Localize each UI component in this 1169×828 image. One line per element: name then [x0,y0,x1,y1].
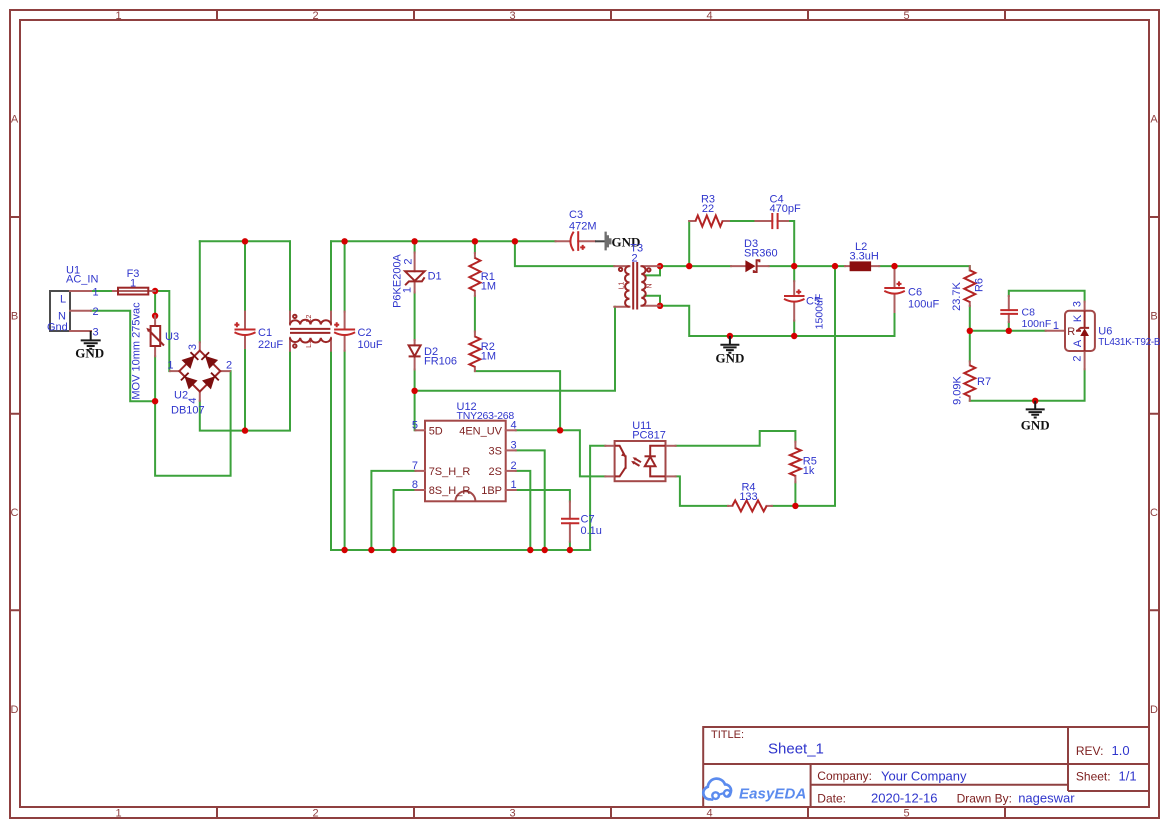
svg-text:C6: C6 [908,287,922,299]
wire opto LED anode to R5 [676,431,796,446]
svg-text:1/1: 1/1 [1119,769,1137,784]
wire D1 to D2 [414,293,416,341]
junction C7 on source bus [567,547,573,553]
wire fuse out to junction and down to bridge pin1 [148,291,170,371]
svg-text:1: 1 [402,287,414,293]
junction T3 feed on bus [512,238,518,244]
wire AC L from U1 pin1 to fuse [91,290,118,292]
svg-text:100uF: 100uF [908,299,939,311]
ground at U6 anode [1021,401,1050,433]
wire U12 pin4 EN/UV to opto emitter [516,430,606,476]
junction after fuse [152,288,158,294]
resistor R1 1M [469,253,496,296]
wire N node down and to bridge pin2 [155,371,231,476]
svg-text:1: 1 [115,10,121,22]
svg-text:1: 1 [1053,320,1059,332]
svg-text:K: K [1072,314,1084,322]
wire D2 bottom to drain node [414,370,416,391]
svg-text:1: 1 [115,808,121,820]
svg-text:L2: L2 [306,315,313,323]
wire R1 top stub [474,241,476,253]
power flag GND at C3 [595,232,640,251]
wire R7 bottom to U6 anode [970,369,1085,401]
svg-text:MOV 10mm 275vac: MOV 10mm 275vac [130,302,142,400]
svg-text:C1: C1 [258,327,272,339]
svg-text:Date:: Date: [817,792,846,806]
junction feedback riser on rail [832,263,838,269]
schottky diode D3 SR360 [731,238,778,272]
bridge diode 1-3 [183,352,198,367]
junction C2 top on bus [341,238,347,244]
wire R3 to C4 [729,220,755,222]
wire secondary rail to D3 [660,265,731,267]
wire C5 top [793,266,795,281]
svg-text:1: 1 [511,479,517,491]
svg-text:3: 3 [509,808,515,820]
wire bridge pin3 up to DC bus [199,241,201,342]
wire D1 top stub [414,241,416,252]
resistor R4 133 [728,482,772,512]
frame column ticks top [217,10,1005,20]
svg-text:1M: 1M [481,281,496,293]
connector U1 AC_IN [47,265,99,339]
svg-text:2: 2 [511,460,517,472]
wire D3 cathode to L2 [769,265,845,267]
svg-text:3.3uH: 3.3uH [850,251,879,263]
svg-text:GND: GND [715,351,744,366]
frame row ticks left [10,217,20,610]
capacitor C1 22uF [234,312,283,351]
wire choke top-right lead up to bus [330,241,332,311]
wire choke bottom-right lead down to source bus [330,351,332,550]
optocoupler U11 PC817 [605,420,675,481]
wire drain node down to U12 pin5 [414,391,417,431]
svg-text:2: 2 [312,10,318,22]
title block rev/sheet column divider [1068,727,1149,791]
wire bus to T3 primary top [515,241,614,266]
svg-text:R: R [1067,326,1075,338]
svg-text:A: A [1150,114,1158,126]
svg-text:L: L [60,293,66,305]
svg-text:5: 5 [903,808,909,820]
svg-text:1500uF: 1500uF [814,294,826,330]
TITLEBLOCK [703,727,1149,807]
svg-text:8: 8 [412,479,418,491]
wire R2 bottom to EN/UV line [475,371,560,430]
svg-text:9.09K: 9.09K [951,375,963,404]
resistor R6 23.7K [951,266,986,311]
resistor R3 22 [689,194,729,227]
svg-text:GND: GND [75,346,104,361]
svg-text:U2: U2 [174,390,188,402]
svg-text:2S: 2S [489,466,502,478]
wire C2 top to bus [344,241,346,311]
svg-text:TNY263-268: TNY263-268 [457,410,515,422]
junction C6 on rail [891,263,897,269]
wire R3 branch up [688,221,690,266]
junction pin2 on source bus [527,547,533,553]
svg-text:3: 3 [93,327,99,339]
capacitor C5 1500uF [784,281,826,329]
wire choke top-left lead up to bus [289,241,291,311]
svg-text:GND: GND [1021,418,1050,433]
junction GND at U6 anode [1032,398,1038,404]
capacitor C8 100nF [1000,296,1051,330]
svg-text:22: 22 [702,203,714,215]
svg-text:B: B [11,311,18,323]
svg-text:3: 3 [511,439,517,451]
capacitor C4 470pF [755,194,801,230]
junction D1 on bus [411,238,417,244]
svg-text:D1: D1 [428,271,442,283]
wire primary source bus [331,549,590,551]
wire R6 bottom to sense node [969,306,971,331]
svg-text:1.0: 1.0 [1112,743,1130,758]
svg-text:2: 2 [93,306,99,318]
svg-text:5: 5 [412,419,418,431]
wire U12 pin1 BP to C7 [516,490,570,502]
ground secondary GND [715,336,744,366]
junction MOV top [152,313,158,319]
svg-text:REV:: REV: [1076,744,1104,758]
junction pin7 on source bus [368,547,374,553]
svg-text:Sheet_1: Sheet_1 [768,741,824,758]
wire R4 right to feedback node [772,505,796,507]
svg-text:AC_IN: AC_IN [66,274,98,286]
junction R4/R5 feedback node [792,503,798,509]
wire sense node down to R7 [969,331,971,362]
svg-text:2: 2 [402,258,414,264]
svg-text:Gnd: Gnd [47,322,68,334]
svg-text:A: A [11,114,19,126]
opto LED [650,446,665,477]
junction pin3 on source bus [542,547,548,553]
junction T3 secondary bottom pin [657,303,663,309]
junction MOV bottom / N [152,398,158,404]
svg-text:3: 3 [187,344,199,350]
svg-text:1BP: 1BP [481,485,502,497]
svg-text:1: 1 [93,287,99,299]
svg-text:U3: U3 [165,331,179,343]
diode D2 FR106 [409,340,457,370]
svg-text:5D: 5D [429,425,443,437]
svg-text:4: 4 [187,397,199,403]
junction sense node [967,328,973,334]
varistor U3 MOV [130,302,179,400]
bridge rectifier U2 DB107 [167,342,232,416]
easyeda logo [703,779,731,800]
svg-text:4: 4 [706,10,712,22]
wire R1 to R2 [474,296,476,332]
wire sense node to U6 ref [970,330,1046,332]
junction T3 secondary top pin [657,263,663,269]
junction C5 bottom [791,333,797,339]
svg-text:3: 3 [1072,301,1084,307]
svg-text:0.1u: 0.1u [581,525,602,537]
resistor R7 9.09K [951,361,991,404]
svg-text:SR360: SR360 [744,248,778,260]
svg-text:470pF: 470pF [770,203,801,215]
capacitor C6 100uF [884,270,939,312]
frame row ticks right [1149,217,1159,610]
wire junction to MOV top [154,291,156,316]
wire opto LED cathode down to R4 [676,476,728,506]
transformer T3 [614,243,660,310]
svg-text:Sheet:: Sheet: [1076,770,1111,784]
svg-text:R6: R6 [974,278,986,292]
svg-text:2020-12-16: 2020-12-16 [871,791,938,806]
fuse F3 [113,268,155,295]
svg-text:100nF: 100nF [1022,318,1052,330]
wire T3 secondary top jog [645,266,661,275]
svg-text:C7: C7 [581,514,595,526]
svg-text:133: 133 [739,491,757,503]
svg-text:PC817: PC817 [632,430,666,442]
wire U12 pin3 to source bus [516,450,545,550]
title block outline [703,727,1149,807]
wire C7 bottom to source bus [569,542,571,550]
svg-text:C2: C2 [358,327,372,339]
wire C8 top over to U6 cathode [1009,291,1085,302]
wire C6 bottom [894,312,896,336]
capacitor C3 472M [556,209,597,251]
junction C1 bottom on DC- rail [242,427,248,433]
svg-text:1: 1 [130,278,136,290]
svg-text:L1: L1 [619,282,626,290]
opto phototransistor [615,446,626,477]
title block logo cell divider [811,764,1068,807]
wire T3 secondary bottom jog [645,296,661,306]
svg-text:FR106: FR106 [424,356,457,368]
bridge diode 4-1 [181,373,196,388]
svg-text:B: B [1150,311,1157,323]
svg-text:U6: U6 [1098,326,1112,338]
junction drain node [411,388,417,394]
wire C2 bottom to source bus [344,351,346,550]
wire U12 pin8 to source bus [394,490,416,550]
shunt regulator U6 TL431K-T92-B [1046,301,1161,369]
svg-text:7S_H_R: 7S_H_R [429,466,471,478]
opto light arrows [633,458,641,466]
junction R1 on bus [472,238,478,244]
svg-text:2: 2 [226,359,232,371]
svg-text:Your Company: Your Company [881,769,967,784]
capacitor C2 10uF [334,312,383,351]
wire drain node to T3 primary bottom [415,307,615,391]
svg-text:D: D [11,704,19,716]
svg-text:Company:: Company: [817,769,872,783]
svg-text:4EN_UV: 4EN_UV [459,425,502,437]
common-mode choke L1/L2 [290,312,331,351]
svg-text:N: N [647,283,654,288]
svg-text:Drawn By:: Drawn By: [957,792,1012,806]
svg-text:7: 7 [412,460,418,472]
junction C8 bottom [1006,328,1012,334]
svg-text:D: D [1150,704,1158,716]
junction C1 top on bus [242,238,248,244]
svg-text:A: A [1072,339,1084,347]
title block row divider [703,763,1149,765]
wire C4 right down to rail [788,221,794,266]
junction R3 branch [686,263,692,269]
resistor R5 1k [790,442,817,483]
wire bridge pin4 to DC- rail [200,351,290,431]
svg-text:10uF: 10uF [358,339,383,351]
svg-text:472M: 472M [569,221,597,233]
svg-text:C: C [11,507,19,519]
svg-text:22uF: 22uF [258,339,283,351]
svg-text:C: C [1150,507,1158,519]
wire secondary ground bus [660,306,895,336]
svg-text:4: 4 [706,808,712,820]
inductor L2 3.3uH [845,241,879,271]
svg-text:P6KE200A: P6KE200A [391,253,403,307]
svg-text:1: 1 [167,359,173,371]
svg-text:DB107: DB107 [171,405,205,417]
junction C4/C5 on rail [791,263,797,269]
IC U12 TNY263-268 [412,401,517,501]
svg-text:C3: C3 [569,209,583,221]
wire DC+ bus segment 2 [331,240,556,242]
wire C1 top to bus [244,241,246,311]
svg-text:3S: 3S [489,445,502,457]
svg-text:L1: L1 [306,340,313,348]
svg-text:TITLE:: TITLE: [711,729,744,741]
wire R5 bottom to feedback node [794,482,796,506]
frame column ticks bottom [217,807,1005,818]
junction secondary GND [727,333,733,339]
svg-text:23.7K: 23.7K [951,281,963,310]
svg-text:8S_H_R: 8S_H_R [429,485,471,497]
bridge diode 4-2 [204,373,219,388]
svg-text:3: 3 [509,10,515,22]
svg-text:C8: C8 [1022,307,1036,319]
svg-text:nageswar: nageswar [1018,791,1075,806]
wire C6 top [894,266,896,270]
wire U12 pin2 to source bus [516,471,531,550]
svg-text:1k: 1k [803,465,815,477]
wire AC N from U1 pin2 down-right to MOV bottom node [91,311,155,402]
capacitor C7 0.1u [561,502,602,542]
wire feedback node up to output rail [795,266,835,506]
svg-text:2: 2 [632,253,638,265]
ground at U1 pin3 [75,331,104,361]
junction R2 on EN line [557,427,563,433]
svg-text:2: 2 [312,808,318,820]
junction C2 on source bus [341,547,347,553]
svg-text:EasyEDA: EasyEDA [739,786,806,803]
bridge diode 2-3 [201,352,216,367]
TVS diode D1 P6KE200A [391,253,441,308]
wire MOV bottom stub [154,356,156,401]
wire source bus up to opto collector [590,446,605,550]
wire DC+ bus segment 1 [200,240,290,242]
wire C1 bottom to DC- rail [244,348,246,431]
svg-text:TL431K-T92-B: TL431K-T92-B [1098,337,1161,348]
resistor R2 1M [469,332,496,372]
wire C5 bottom [793,321,795,336]
wire L2 to output [879,266,970,270]
svg-text:1M: 1M [481,351,496,363]
svg-text:5: 5 [903,10,909,22]
junction pin8 on source bus [390,547,396,553]
svg-text:R7: R7 [977,376,991,388]
wire U12 pin7 to source bus [371,471,415,550]
wire C8 bottom to sense node [1008,322,1010,331]
svg-text:2: 2 [1072,355,1084,361]
